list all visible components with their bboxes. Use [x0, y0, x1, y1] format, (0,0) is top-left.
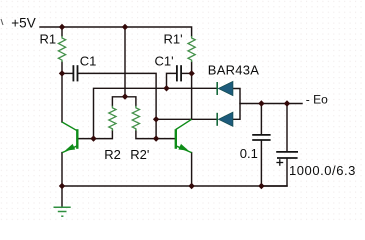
svg-text:1000.0/6.3: 1000.0/6.3: [289, 163, 356, 178]
svg-text:+5V: +5V: [11, 16, 35, 31]
svg-text:0.1: 0.1: [240, 146, 258, 161]
svg-text:R2: R2: [104, 147, 121, 162]
svg-text:R1': R1': [164, 31, 183, 46]
svg-text:- Eo: - Eo: [306, 92, 328, 106]
svg-text:C1: C1: [80, 53, 97, 68]
svg-text:R2': R2': [130, 147, 149, 162]
svg-text:C1': C1': [155, 53, 174, 68]
svg-text:BAR43A: BAR43A: [208, 63, 259, 78]
svg-text:R1: R1: [40, 31, 57, 46]
